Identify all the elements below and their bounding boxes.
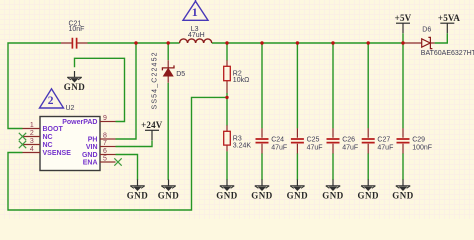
svg-text:47uF: 47uF — [342, 144, 358, 151]
svg-text:C27: C27 — [377, 136, 390, 143]
svg-text:47uF: 47uF — [271, 144, 287, 151]
wire rail to cap at x=333 — [332, 43, 334, 128]
svg-text:47uH: 47uH — [188, 32, 205, 39]
pin 1 BOOT — [23, 122, 64, 133]
svg-text:47uF: 47uF — [377, 144, 393, 151]
wire rail to cap at x=368.2 — [367, 43, 369, 128]
power flag +5V — [395, 13, 412, 33]
wire cap to ground at x=368.2 — [367, 153, 369, 180]
svg-text:ENA: ENA — [83, 160, 98, 167]
wire cap to ground at x=333 — [332, 153, 334, 180]
wire D6 cathode to +5VA flag — [435, 33, 448, 43]
svg-text:6: 6 — [103, 148, 107, 155]
pin 3 NC — [23, 138, 53, 149]
op-amp/regulator U2 (TPS54331-style) body — [40, 117, 100, 171]
ground C25 — [287, 180, 309, 201]
ground C26 — [322, 180, 344, 201]
svg-text:+5VA: +5VA — [438, 13, 461, 23]
no-connect X at pin2 — [19, 133, 26, 140]
ground R3 — [216, 180, 238, 201]
svg-text:10nF: 10nF — [69, 26, 85, 33]
svg-text:U2: U2 — [66, 105, 75, 112]
svg-text:NC: NC — [43, 142, 53, 149]
wire PowerPAD to ground — [75, 58, 125, 121]
svg-text:8: 8 — [103, 132, 107, 139]
flag triangle 2 — [40, 89, 64, 108]
wire PH pin to rail — [116, 43, 137, 139]
power flag +24V — [141, 120, 163, 140]
wire R3 bottom to ground — [226, 151, 228, 180]
svg-text:GND: GND — [216, 190, 238, 200]
svg-text:GND: GND — [357, 190, 379, 200]
wire VIN to +24V flag — [116, 141, 153, 147]
pin 6 GND — [82, 148, 116, 159]
wire node to R3 top — [226, 97, 228, 125]
svg-text:GND: GND — [287, 190, 309, 200]
pin 2 NC — [23, 130, 53, 141]
wire R2 bottom to node — [226, 93, 228, 97]
pin 9 PowerPAD — [62, 115, 115, 126]
svg-text:PH: PH — [88, 137, 98, 144]
ground C24 — [251, 180, 273, 201]
capacitor C26 — [327, 128, 359, 153]
wire rail to D5 cathode — [167, 43, 169, 60]
wire GND pin down — [116, 155, 138, 181]
svg-text:+24V: +24V — [141, 120, 163, 130]
capacitor C27 — [362, 128, 394, 153]
svg-text:GND: GND — [392, 190, 414, 200]
svg-text:3.24K: 3.24K — [233, 143, 252, 150]
wire C21 right to L3 left (PH rail) — [88, 42, 180, 44]
diode D6 — [404, 26, 435, 48]
svg-text:10kΩ: 10kΩ — [233, 77, 250, 84]
svg-text:NC: NC — [43, 134, 53, 141]
svg-text:GND: GND — [158, 190, 180, 200]
svg-text:SS54_C22452: SS54_C22452 — [151, 51, 158, 109]
svg-text:R3: R3 — [233, 135, 242, 142]
svg-text:C29: C29 — [412, 136, 425, 143]
wire rail to cap at x=262 — [261, 43, 263, 128]
resistor R2 — [224, 60, 250, 93]
capacitor C21 — [61, 20, 88, 48]
svg-text:+5V: +5V — [395, 13, 412, 23]
resistor R3 — [224, 125, 252, 151]
ground C29 — [392, 180, 414, 201]
svg-text:D6: D6 — [422, 26, 431, 33]
no-connect X at pin5 — [114, 158, 121, 165]
pin 5 ENA — [83, 155, 116, 166]
svg-text:VSENSE: VSENSE — [43, 150, 72, 157]
svg-text:GND: GND — [64, 82, 86, 92]
svg-text:2: 2 — [30, 130, 34, 137]
svg-text:1: 1 — [192, 5, 198, 19]
svg-text:BOOT: BOOT — [43, 126, 64, 133]
capacitor C29 — [397, 128, 433, 153]
capacitor C24 — [256, 128, 288, 153]
svg-text:47uF: 47uF — [307, 144, 323, 151]
svg-text:GND: GND — [82, 152, 98, 159]
svg-text:BAT60AE6327HTSA1: BAT60AE6327HTSA1 — [421, 50, 474, 57]
svg-text:C25: C25 — [307, 136, 320, 143]
svg-text:C26: C26 — [342, 136, 355, 143]
svg-text:GND: GND — [251, 190, 273, 200]
wire BOOT to C21 left (top-left loop) — [8, 43, 61, 129]
svg-text:D5: D5 — [176, 71, 185, 78]
junction dots on rails — [134, 41, 404, 99]
svg-text:3: 3 — [30, 138, 34, 145]
svg-text:C24: C24 — [271, 136, 284, 143]
ground C27 — [357, 180, 379, 201]
svg-text:GND: GND — [127, 190, 149, 200]
svg-text:GND: GND — [322, 190, 344, 200]
flag triangle 1 — [183, 0, 208, 20]
svg-text:4: 4 — [30, 146, 34, 153]
wire cap to ground at x=297.4 — [296, 153, 298, 180]
svg-text:2: 2 — [48, 95, 54, 107]
wire cap to ground at x=262 — [261, 153, 263, 180]
wire rail to +5V flag — [402, 33, 404, 43]
ground D5 — [158, 180, 180, 201]
inductor L3 — [180, 26, 212, 43]
wire rail to cap at x=403 — [402, 43, 404, 128]
svg-text:9: 9 — [103, 115, 107, 122]
wire feedback node to VSENSE — [8, 97, 227, 210]
wire L3 right to D6 anode (+5V rail) — [212, 42, 404, 44]
ground U2 GND pin — [127, 180, 149, 201]
capacitor C25 — [291, 128, 323, 153]
pin 8 PH — [88, 132, 116, 143]
wire rail to R2 top — [226, 43, 228, 61]
wire cap to ground at x=403 — [402, 153, 404, 180]
svg-text:5: 5 — [103, 155, 107, 162]
svg-text:100nF: 100nF — [412, 144, 432, 151]
pin 7 VIN — [86, 140, 116, 151]
svg-text:PowerPAD: PowerPAD — [62, 119, 97, 126]
ground near C21 / PowerPAD — [64, 71, 86, 92]
svg-text:7: 7 — [103, 140, 107, 147]
svg-text:1: 1 — [30, 122, 34, 129]
svg-text:VIN: VIN — [86, 144, 98, 151]
diode D5 — [162, 60, 185, 83]
wire rail to cap at x=297.4 — [296, 43, 298, 128]
no-connect X at pin3 — [19, 141, 26, 148]
power flag +5VA — [438, 13, 461, 33]
pin 4 VSENSE — [23, 146, 72, 157]
wire D5 anode to ground — [167, 83, 169, 180]
